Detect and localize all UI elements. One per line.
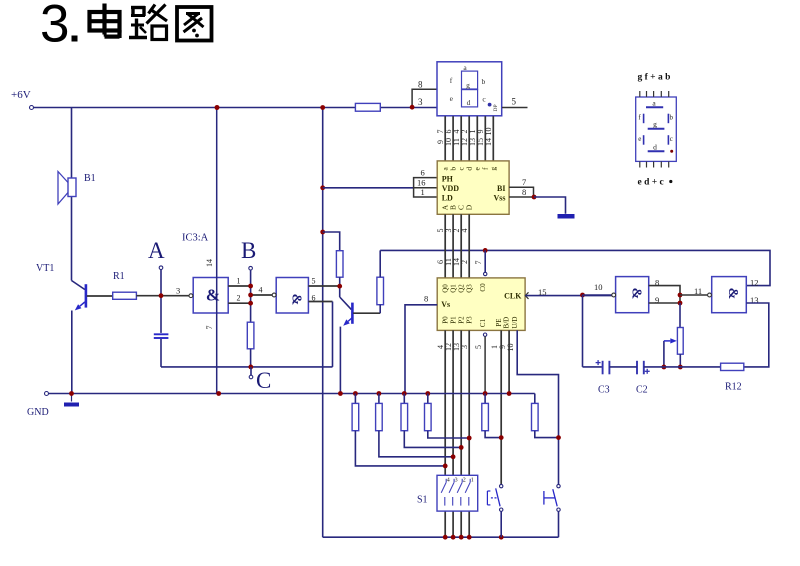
svg-text:10: 10 — [506, 344, 515, 352]
svg-text:e d + c: e d + c — [638, 178, 664, 188]
svg-text:3: 3 — [418, 97, 423, 107]
svg-text:R1: R1 — [113, 271, 125, 282]
svg-text:8: 8 — [522, 187, 526, 197]
svg-text:PH: PH — [442, 174, 454, 183]
svg-text:R12: R12 — [725, 382, 742, 393]
svg-text:2: 2 — [463, 478, 466, 484]
svg-text:g: g — [466, 81, 470, 90]
svg-text:5: 5 — [512, 97, 517, 107]
svg-text:PE: PE — [495, 318, 503, 326]
svg-text:4: 4 — [460, 229, 469, 233]
svg-text:g f + a b: g f + a b — [638, 73, 671, 83]
svg-text:6: 6 — [312, 293, 316, 302]
svg-text:9: 9 — [655, 295, 659, 305]
svg-text:BI: BI — [497, 184, 505, 193]
svg-text:A: A — [148, 238, 165, 263]
svg-text:7: 7 — [522, 177, 526, 187]
svg-text:Q1: Q1 — [449, 284, 457, 293]
svg-text:3: 3 — [176, 286, 180, 296]
svg-text:2: 2 — [460, 260, 469, 264]
svg-text:1: 1 — [421, 187, 425, 197]
svg-text:C3: C3 — [598, 385, 610, 396]
svg-text:CLK: CLK — [504, 292, 522, 301]
svg-text:Q0: Q0 — [441, 284, 449, 293]
svg-text:B/D: B/D — [503, 317, 511, 329]
svg-text:d: d — [467, 98, 471, 107]
svg-text:4: 4 — [447, 478, 450, 484]
svg-text:D: D — [464, 204, 473, 210]
svg-text:Vs: Vs — [441, 300, 450, 309]
svg-text:11: 11 — [694, 286, 702, 296]
svg-text:VDD: VDD — [442, 184, 460, 193]
svg-text:8: 8 — [418, 80, 423, 90]
svg-text:&: & — [725, 288, 740, 300]
svg-text:8: 8 — [424, 294, 428, 304]
svg-text:&: & — [629, 288, 644, 300]
svg-text:1: 1 — [237, 277, 241, 286]
svg-text:e: e — [638, 135, 641, 143]
svg-text:b: b — [482, 77, 486, 86]
svg-text:+6V: +6V — [11, 89, 31, 101]
svg-text:8: 8 — [655, 278, 659, 288]
svg-text:P2: P2 — [457, 316, 465, 324]
svg-text:B: B — [241, 238, 256, 263]
svg-text:U/D: U/D — [511, 317, 519, 329]
svg-text:g: g — [489, 167, 498, 171]
svg-text:15: 15 — [538, 287, 547, 297]
svg-text:P1: P1 — [449, 316, 457, 324]
svg-text:10: 10 — [594, 282, 603, 292]
svg-text:C: C — [256, 368, 271, 393]
svg-text:&: & — [206, 286, 220, 305]
svg-text:14: 14 — [484, 138, 493, 146]
svg-text:IC3:A: IC3:A — [182, 233, 209, 244]
svg-text:Q3: Q3 — [465, 284, 473, 293]
svg-text:VT1: VT1 — [36, 263, 54, 274]
svg-text:3: 3 — [455, 478, 458, 484]
svg-text:GND: GND — [27, 407, 49, 418]
svg-text:LD: LD — [442, 193, 453, 202]
svg-text:&: & — [288, 294, 303, 306]
svg-text:P0: P0 — [441, 316, 449, 324]
svg-text:4: 4 — [259, 286, 263, 295]
svg-text:C1: C1 — [479, 318, 487, 327]
svg-text:5: 5 — [312, 277, 316, 286]
svg-text:DP: DP — [493, 104, 499, 111]
svg-text:P3: P3 — [465, 316, 473, 324]
svg-text:Q2: Q2 — [457, 284, 465, 293]
svg-text:14: 14 — [205, 259, 214, 267]
svg-text:12: 12 — [750, 278, 759, 288]
svg-text:C2: C2 — [636, 385, 648, 396]
svg-text:10: 10 — [484, 128, 493, 136]
svg-text:b: b — [670, 114, 674, 122]
svg-text:Vss: Vss — [493, 193, 505, 202]
svg-text:3: 3 — [40, 0, 69, 54]
svg-text:6: 6 — [421, 168, 425, 178]
svg-text:g: g — [653, 120, 657, 129]
svg-text:C0: C0 — [479, 283, 487, 292]
svg-text:16: 16 — [417, 178, 426, 188]
svg-text:d: d — [653, 142, 657, 151]
svg-text:2: 2 — [237, 294, 241, 303]
svg-text:c: c — [670, 135, 673, 143]
svg-text:5: 5 — [474, 345, 483, 349]
svg-text:S1: S1 — [417, 495, 428, 506]
svg-text:B1: B1 — [84, 173, 96, 184]
svg-text:1: 1 — [471, 478, 474, 484]
svg-text:7: 7 — [474, 261, 483, 265]
svg-text:7: 7 — [205, 326, 214, 330]
